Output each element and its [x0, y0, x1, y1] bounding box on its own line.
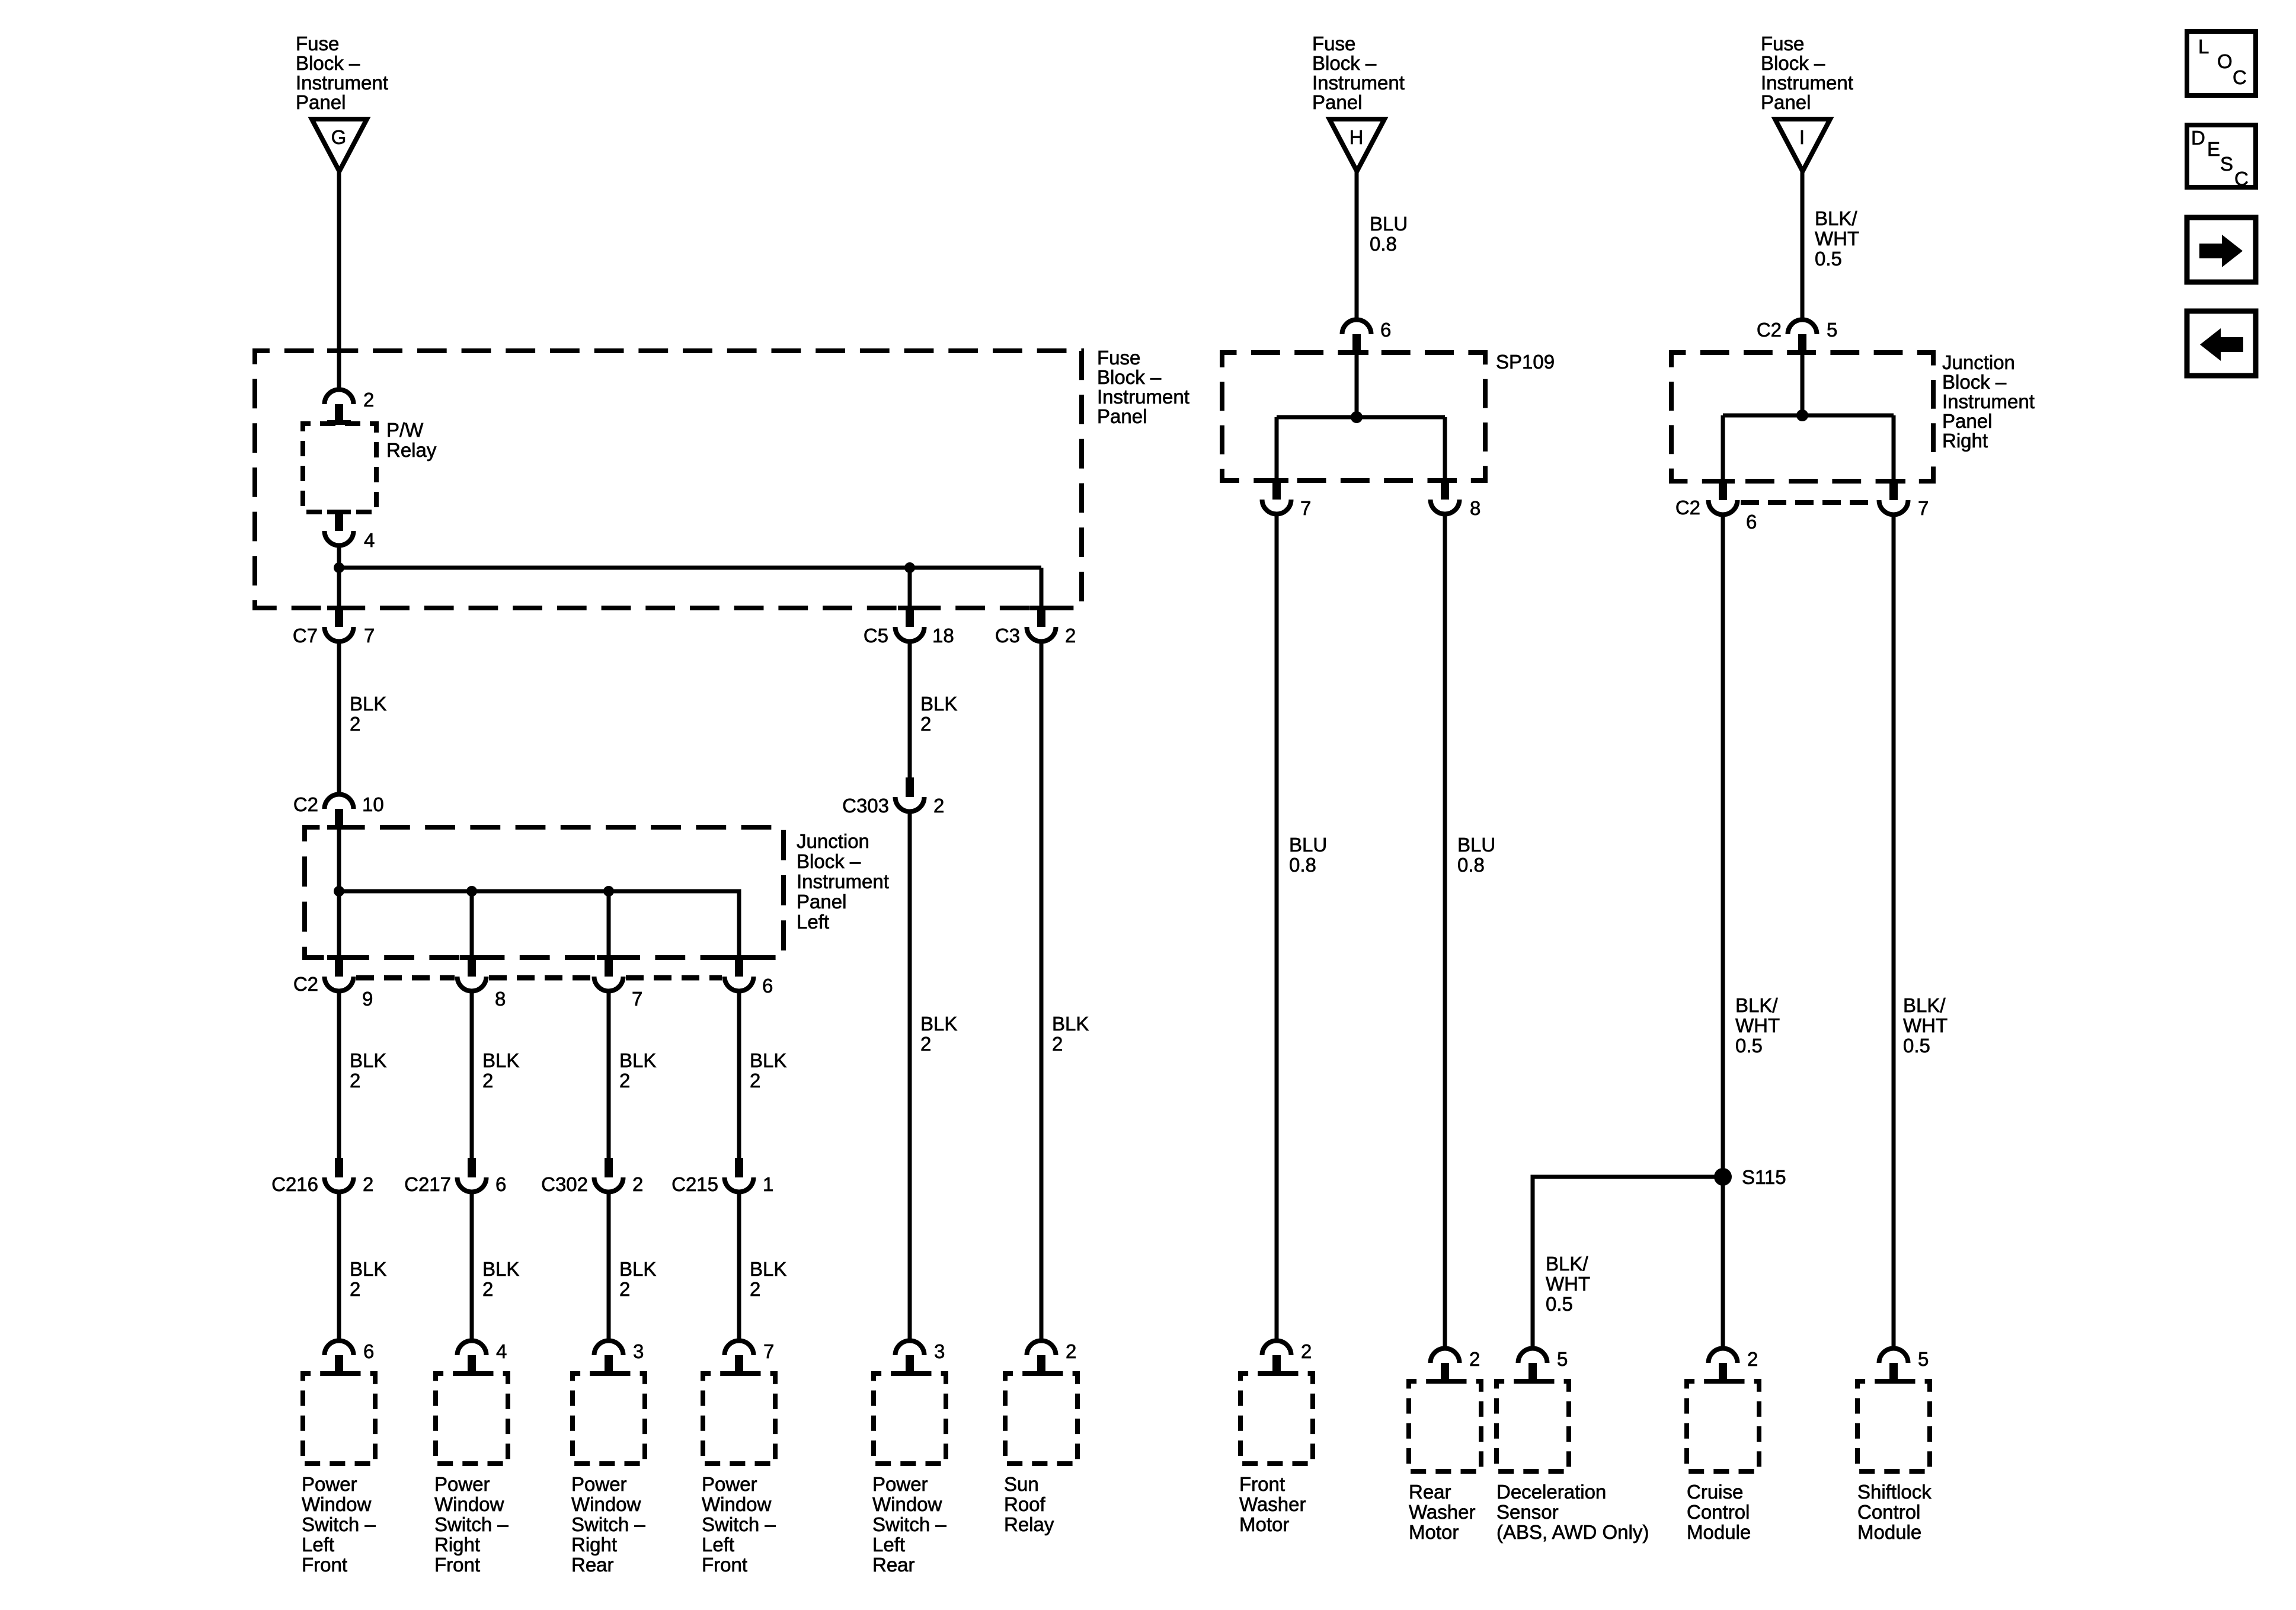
svg-text:2: 2 [350, 713, 360, 735]
wire label BLU 0.8 (rear washer) [1457, 834, 1495, 876]
connector C2 pin 6 out of junction block right (cup) [1709, 479, 1738, 515]
wire label BLK 2 above C217 [482, 1049, 519, 1092]
svg-text:BLU: BLU [1457, 834, 1495, 856]
connector C302 (inline) [594, 1158, 623, 1192]
svg-text:C2: C2 [293, 973, 318, 995]
power window switch right front box [436, 1374, 508, 1464]
connector C2 pin 10 into junction block (arc) [325, 794, 354, 830]
svg-text:Sensor: Sensor [1496, 1501, 1559, 1523]
svg-text:Right: Right [1942, 430, 1988, 452]
svg-text:WHT: WHT [1815, 228, 1859, 249]
wire: wire C303 to power window switch left rear [908, 814, 912, 1339]
svg-text:Junction: Junction [797, 830, 869, 852]
svg-text:Sun: Sun [1004, 1473, 1039, 1495]
wire: bus wire to C5/C3 [339, 566, 1041, 570]
svg-text:7: 7 [1300, 497, 1311, 519]
svg-text:Right: Right [571, 1534, 617, 1555]
svg-text:Deceleration: Deceleration [1496, 1481, 1606, 1503]
forward arrow icon box [2187, 217, 2256, 282]
svg-text:2: 2 [1065, 625, 1076, 646]
label fuse block H header [1312, 33, 1405, 113]
svg-text:2: 2 [482, 1070, 493, 1092]
label rear washer motor [1409, 1481, 1475, 1543]
svg-text:Fuse: Fuse [1097, 347, 1140, 369]
svg-text:Window: Window [302, 1493, 372, 1515]
svg-text:2: 2 [363, 389, 374, 411]
shiftlock control module box [1857, 1381, 1930, 1471]
svg-text:P/W: P/W [386, 419, 424, 441]
power window switch left rear box [874, 1374, 946, 1464]
label junction block right [1942, 351, 2035, 452]
label P/W relay [386, 419, 437, 461]
back arrow icon box [2187, 311, 2256, 376]
connector pin 6 into power window switch left front (arc) [325, 1341, 354, 1377]
DESC icon box [2187, 125, 2256, 190]
connector pin 7 out of SP109 (cup) [1262, 478, 1291, 514]
svg-text:Cruise: Cruise [1687, 1481, 1743, 1503]
label cruise control module [1687, 1481, 1751, 1543]
connector pin 5 into deceleration sensor (arc) [1518, 1349, 1547, 1384]
svg-text:SP109: SP109 [1496, 351, 1555, 373]
svg-text:7: 7 [763, 1340, 774, 1362]
svg-text:Motor: Motor [1409, 1521, 1459, 1543]
connector C2 pin 6 (cup) [725, 955, 754, 991]
P/W relay box [303, 424, 376, 512]
wire: wire bus to C5 [908, 568, 912, 606]
wire: wire inside junction block right [1801, 355, 1805, 415]
svg-text:Front: Front [434, 1554, 480, 1576]
svg-text:BLK: BLK [350, 693, 386, 715]
svg-text:Panel: Panel [797, 891, 846, 913]
wire label BLK 2 (column A upper) [350, 693, 386, 735]
wire: SP109 left drop [1275, 417, 1279, 478]
wire: wire C216 upper [337, 993, 341, 1158]
svg-text:Front: Front [1239, 1473, 1285, 1495]
svg-text:6: 6 [762, 975, 773, 997]
svg-text:Power: Power [872, 1473, 928, 1495]
svg-text:4: 4 [364, 529, 375, 551]
svg-text:Instrument: Instrument [797, 870, 889, 892]
svg-text:0.8: 0.8 [1370, 233, 1397, 255]
wire label BLK 2 below C302 [619, 1258, 656, 1300]
svg-text:2: 2 [1469, 1348, 1480, 1370]
svg-text:Block –: Block – [296, 52, 360, 74]
svg-text:10: 10 [362, 793, 384, 815]
wire: wire H to SP109 [1355, 171, 1359, 318]
svg-text:Instrument: Instrument [296, 72, 388, 94]
svg-text:2: 2 [619, 1278, 630, 1300]
label fuse block G header [296, 33, 388, 113]
svg-text:Panel: Panel [1097, 405, 1147, 427]
wire: wire C217 lower [470, 1194, 474, 1339]
connector pin 6 into SP109 (arc) [1342, 320, 1371, 356]
wire: wire C302 upper [607, 993, 611, 1158]
power window switch right rear box [573, 1374, 645, 1464]
wire label BLK 2 below C216 [350, 1258, 386, 1300]
svg-text:3: 3 [934, 1340, 945, 1362]
junction dot C [603, 886, 614, 897]
svg-text:G: G [331, 126, 347, 148]
connector C2 pin 7 (cup) [594, 955, 623, 991]
svg-text:7: 7 [632, 988, 642, 1010]
svg-text:3: 3 [633, 1340, 644, 1362]
wire: wire C217 upper [470, 993, 474, 1158]
svg-text:BLK: BLK [750, 1258, 786, 1280]
dotted connector line C2 right row [1741, 500, 1876, 505]
junction dot A [334, 886, 344, 897]
svg-text:Power: Power [702, 1473, 757, 1495]
power window switch left front 2 box [703, 1374, 775, 1464]
svg-text:6: 6 [363, 1340, 374, 1362]
svg-text:C3: C3 [995, 625, 1020, 646]
svg-text:BLK/: BLK/ [1546, 1253, 1588, 1275]
svg-text:S: S [2220, 153, 2233, 175]
svg-text:BLK: BLK [920, 693, 957, 715]
wire: wire I to junction block right [1801, 171, 1805, 318]
cruise control module box [1687, 1381, 1759, 1471]
svg-text:BLK: BLK [482, 1049, 519, 1071]
svg-text:C302: C302 [541, 1173, 588, 1195]
svg-text:2: 2 [920, 1033, 931, 1055]
svg-text:C2: C2 [293, 793, 318, 815]
SP109 splice box [1222, 353, 1485, 481]
connector C5 pin 18 (cup) [896, 606, 925, 642]
svg-text:2: 2 [1301, 1340, 1312, 1362]
wire: wire C7 to C2 [337, 644, 341, 792]
svg-text:4: 4 [496, 1340, 507, 1362]
connector C7 pin 7 (cup) [325, 606, 354, 642]
svg-text:Window: Window [702, 1493, 772, 1515]
svg-text:Right: Right [434, 1534, 480, 1555]
connector pin 2 into sun roof relay (arc) [1027, 1341, 1056, 1377]
junction node at P/W relay output [334, 562, 344, 573]
svg-text:7: 7 [364, 625, 375, 646]
connector pin 3 into power window switch right rear (arc) [594, 1341, 623, 1377]
wire: right block left drop [1721, 415, 1725, 479]
svg-text:Window: Window [571, 1493, 641, 1515]
svg-text:6: 6 [495, 1173, 506, 1195]
wire: junction block right bus wire [1723, 414, 1894, 418]
connector pin 3 into power window switch left rear (arc) [896, 1341, 925, 1377]
label power window switch left rear [872, 1473, 946, 1576]
svg-text:BLK: BLK [482, 1258, 519, 1280]
wire: wire S115 to cruise control module [1721, 1185, 1725, 1346]
svg-text:C: C [2233, 66, 2247, 88]
wire label BLK 2 below C303 [920, 1013, 957, 1055]
wire label BLK 2 below C3 [1052, 1013, 1089, 1055]
junction node right block [1796, 409, 1808, 421]
svg-text:C215: C215 [671, 1173, 718, 1195]
svg-text:Front: Front [702, 1554, 747, 1576]
connector pin 2 into cruise control module (arc) [1709, 1349, 1738, 1384]
wire: wire C215 upper [737, 993, 741, 1158]
svg-text:BLK: BLK [350, 1049, 386, 1071]
svg-text:2: 2 [920, 713, 931, 735]
svg-text:2: 2 [750, 1070, 760, 1092]
svg-text:Relay: Relay [1004, 1513, 1054, 1535]
deceleration sensor box [1496, 1381, 1569, 1471]
connector pin 4 out of P/W relay (cup) [325, 510, 354, 545]
svg-text:9: 9 [362, 988, 373, 1010]
svg-text:2: 2 [350, 1278, 360, 1300]
wire: bus drop C [607, 891, 611, 955]
svg-text:Rear: Rear [872, 1554, 915, 1576]
svg-text:0.5: 0.5 [1903, 1035, 1930, 1057]
wire: SP109 right drop [1443, 417, 1447, 478]
wire label BLU 0.8 (front washer) [1289, 834, 1327, 876]
svg-text:Roof: Roof [1004, 1493, 1046, 1515]
junction block instrument panel right box [1671, 353, 1933, 481]
svg-text:5: 5 [1918, 1348, 1929, 1370]
wire: bus drop B [470, 891, 474, 955]
svg-text:1: 1 [763, 1173, 773, 1195]
connector C2 pin 7 out of junction block right (cup) [1879, 479, 1908, 515]
svg-text:Block –: Block – [1942, 371, 2007, 393]
svg-text:WHT: WHT [1903, 1014, 1948, 1036]
svg-text:Fuse: Fuse [1761, 33, 1804, 55]
connector C215 (inline) [725, 1158, 754, 1192]
connector pin 2 into P/W relay (arc) [325, 390, 354, 425]
svg-text:C2: C2 [1757, 319, 1782, 341]
wire: wire SP109 pin7 to front washer motor [1275, 516, 1279, 1339]
svg-text:Fuse: Fuse [296, 33, 339, 55]
svg-text:Shiftlock: Shiftlock [1857, 1481, 1932, 1503]
svg-text:2: 2 [350, 1070, 360, 1092]
svg-text:0.8: 0.8 [1457, 854, 1485, 876]
svg-text:2: 2 [1747, 1348, 1758, 1370]
connector pin 4 into power window switch right front (arc) [458, 1341, 487, 1377]
off-page connector I (triangle) [1775, 119, 1830, 171]
wire label BLK/WHT 0.5 (shiftlock) [1903, 994, 1948, 1057]
connector C303 (inline) [896, 777, 925, 812]
svg-text:Module: Module [1687, 1521, 1751, 1543]
svg-text:D: D [2191, 127, 2205, 149]
connector pin 5 into shiftlock control module (arc) [1879, 1349, 1908, 1384]
svg-text:Left: Left [872, 1534, 905, 1555]
wire: wire bus corner to C3 [1040, 568, 1044, 606]
svg-text:2: 2 [619, 1070, 630, 1092]
wire: wire C3 to sun roof relay [1040, 644, 1044, 1339]
svg-text:Relay: Relay [386, 439, 437, 461]
junction dot B [466, 886, 477, 897]
svg-text:Control: Control [1687, 1501, 1750, 1523]
wire: wire pin4 to C7 [337, 548, 341, 606]
connector C216 (inline) [325, 1158, 354, 1192]
svg-text:Switch –: Switch – [872, 1513, 946, 1535]
svg-text:Rear: Rear [1409, 1481, 1451, 1503]
wire: wire C2 pin7 to shiftlock control module [1892, 517, 1896, 1346]
svg-text:Power: Power [434, 1473, 490, 1495]
connector C2 pin 8 (cup) [458, 955, 487, 991]
svg-text:Switch –: Switch – [302, 1513, 376, 1535]
label power window switch left front [302, 1473, 376, 1576]
svg-text:(ABS, AWD Only): (ABS, AWD Only) [1496, 1521, 1649, 1543]
svg-text:Power: Power [302, 1473, 357, 1495]
connector pin 7 into power window switch left front 2 (arc) [725, 1341, 754, 1377]
front washer motor box [1240, 1374, 1313, 1464]
svg-text:Window: Window [872, 1493, 942, 1515]
svg-text:7: 7 [1918, 497, 1929, 519]
wire: wire C5 to C303 [908, 644, 912, 778]
label deceleration sensor [1496, 1481, 1649, 1543]
svg-text:Panel: Panel [1761, 91, 1811, 113]
svg-text:BLK: BLK [1052, 1013, 1089, 1035]
wire: wire C215 lower [737, 1194, 741, 1339]
wire label BLK/WHT 0.5 (I) [1815, 207, 1859, 270]
svg-text:C5: C5 [864, 625, 888, 646]
wire: wire C2 pin6 to S115 [1721, 517, 1725, 1169]
svg-text:BLK: BLK [750, 1049, 786, 1071]
svg-text:5: 5 [1827, 319, 1837, 341]
junction block instrument panel left box [305, 827, 784, 958]
svg-text:BLU: BLU [1370, 213, 1408, 235]
svg-text:2: 2 [1052, 1033, 1063, 1055]
rear washer motor box [1409, 1381, 1481, 1471]
LOC icon box [2187, 31, 2256, 95]
svg-text:C217: C217 [404, 1173, 451, 1195]
wire label BLK 2 above C216 [350, 1049, 386, 1092]
junction node bus to C5 [904, 562, 915, 573]
svg-text:C2: C2 [1675, 497, 1700, 518]
label power window switch right front [434, 1473, 509, 1576]
svg-text:C303: C303 [842, 795, 889, 817]
svg-text:0.8: 0.8 [1289, 854, 1316, 876]
connector C2 pin 9 (cup) [325, 955, 354, 991]
label fuse block instrument panel [1097, 347, 1189, 427]
wire: wire through junction block left [337, 830, 341, 955]
label sun roof relay [1004, 1473, 1054, 1535]
svg-text:Washer: Washer [1239, 1493, 1306, 1515]
label power window switch right rear [571, 1473, 645, 1576]
wire: branch wire S115 to deceleration sensor [1533, 1177, 1723, 1346]
wire: right block right drop [1892, 415, 1896, 479]
svg-text:E: E [2207, 138, 2220, 160]
sun roof relay box [1005, 1374, 1077, 1464]
dotted connector line C2 row [356, 975, 722, 981]
svg-text:C7: C7 [293, 625, 318, 646]
svg-text:8: 8 [495, 988, 506, 1010]
svg-text:O: O [2217, 50, 2233, 72]
svg-text:2: 2 [363, 1173, 373, 1195]
svg-text:Junction: Junction [1942, 351, 2015, 373]
svg-text:L: L [2198, 36, 2209, 57]
wire label BLU 0.8 (H) [1370, 213, 1408, 255]
svg-text:0.5: 0.5 [1546, 1293, 1573, 1315]
label front washer motor [1239, 1473, 1306, 1535]
svg-text:Panel: Panel [1942, 410, 1992, 432]
svg-text:6: 6 [1380, 319, 1391, 341]
wire label BLK/WHT 0.5 (cruise branch) [1735, 994, 1780, 1057]
svg-text:2: 2 [482, 1278, 493, 1300]
fuse block instrument panel box [255, 351, 1082, 608]
svg-text:Module: Module [1857, 1521, 1921, 1543]
wire: wire C302 lower [607, 1194, 611, 1339]
junction node SP109 [1351, 411, 1363, 423]
svg-text:BLK: BLK [619, 1049, 656, 1071]
svg-text:2: 2 [632, 1173, 643, 1195]
svg-text:WHT: WHT [1735, 1014, 1780, 1036]
svg-text:Block –: Block – [1312, 52, 1377, 74]
svg-text:2: 2 [1066, 1340, 1076, 1362]
power window switch left front box [303, 1374, 375, 1464]
wire label BLK 2 below C5 [920, 693, 957, 735]
wire label BLK/WHT 0.5 (deceleration) [1546, 1253, 1590, 1315]
wire crossing bar at fuse block top [327, 348, 351, 353]
svg-text:WHT: WHT [1546, 1273, 1590, 1295]
off-page connector H (triangle) [1329, 119, 1384, 171]
svg-text:Instrument: Instrument [1097, 386, 1189, 408]
label power window switch left front 2 [702, 1473, 776, 1576]
svg-text:BLK/: BLK/ [1735, 994, 1778, 1016]
connector pin 2 into front washer motor (arc) [1262, 1341, 1291, 1377]
wire: wire SP109 pin8 to rear washer motor [1443, 516, 1447, 1346]
svg-text:6: 6 [1746, 511, 1757, 533]
svg-text:I: I [1799, 126, 1805, 148]
svg-text:0.5: 0.5 [1815, 248, 1842, 270]
svg-text:Power: Power [571, 1473, 627, 1495]
wire: wire inside SP109 [1355, 355, 1359, 417]
svg-text:Block –: Block – [1761, 52, 1825, 74]
wire: junction block left bus wire [339, 891, 739, 955]
wire: SP109 bus wire [1277, 415, 1445, 420]
svg-text:Block –: Block – [797, 850, 861, 872]
svg-text:Washer: Washer [1409, 1501, 1475, 1523]
svg-text:Panel: Panel [296, 91, 346, 113]
svg-text:BLK: BLK [350, 1258, 386, 1280]
svg-text:18: 18 [932, 625, 954, 646]
svg-text:Control: Control [1857, 1501, 1920, 1523]
svg-text:Block –: Block – [1097, 366, 1162, 388]
svg-text:Rear: Rear [571, 1554, 614, 1576]
svg-text:BLU: BLU [1289, 834, 1327, 856]
svg-text:Instrument: Instrument [1312, 72, 1405, 94]
svg-text:2: 2 [933, 795, 944, 817]
svg-text:5: 5 [1557, 1348, 1568, 1370]
splice S115 [1714, 1168, 1732, 1186]
wire label BLK 2 above C302 [619, 1049, 656, 1092]
off-page connector G (triangle) [312, 119, 367, 171]
svg-text:Motor: Motor [1239, 1513, 1289, 1535]
svg-text:2: 2 [750, 1278, 760, 1300]
label junction block left [797, 830, 889, 933]
label fuse block I header [1761, 33, 1853, 113]
svg-text:BLK/: BLK/ [1815, 207, 1857, 229]
svg-text:S115: S115 [1742, 1166, 1786, 1188]
svg-text:Switch –: Switch – [571, 1513, 645, 1535]
connector C3 pin 2 (cup) [1027, 606, 1056, 642]
svg-text:Window: Window [434, 1493, 504, 1515]
svg-text:C: C [2234, 168, 2249, 190]
svg-text:BLK: BLK [619, 1258, 656, 1280]
svg-text:C216: C216 [271, 1173, 318, 1195]
wire label BLK 2 below C215 [750, 1258, 786, 1300]
label shiftlock control module [1857, 1481, 1932, 1543]
svg-text:Left: Left [797, 911, 829, 933]
svg-text:Left: Left [302, 1534, 334, 1555]
svg-text:0.5: 0.5 [1735, 1035, 1763, 1057]
svg-text:Fuse: Fuse [1312, 33, 1355, 55]
svg-text:BLK/: BLK/ [1903, 994, 1946, 1016]
connector C217 (inline) [458, 1158, 487, 1192]
svg-text:BLK: BLK [920, 1013, 957, 1035]
svg-text:Panel: Panel [1312, 91, 1362, 113]
wire label BLK 2 below C217 [482, 1258, 519, 1300]
wire: wire G to fuse block [337, 171, 341, 388]
svg-text:Instrument: Instrument [1942, 391, 2035, 412]
svg-text:Switch –: Switch – [434, 1513, 509, 1535]
svg-text:H: H [1350, 126, 1364, 148]
svg-text:8: 8 [1470, 497, 1480, 519]
